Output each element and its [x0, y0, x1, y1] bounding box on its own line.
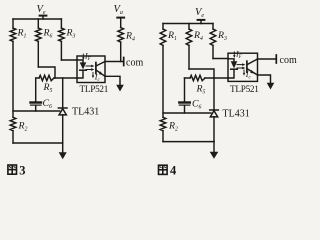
- svg-text:IF: IF: [84, 52, 92, 63]
- wire: R3 to LED anode pin: [61, 59, 77, 61]
- wire: cathode line to optocoupler: [54, 77, 77, 79]
- svg-text:R4: R4: [193, 30, 203, 42]
- svg-text:com: com: [126, 58, 143, 69]
- resistor R5: [185, 75, 206, 80]
- svg-text:TLP521: TLP521: [230, 84, 259, 94]
- op-to-coupler U3 TLP521 box: [228, 53, 258, 81]
- label Fig3 glyph: [8, 165, 17, 174]
- ground arrow (emitter, right circuit): [267, 83, 275, 90]
- svg-text:Ve: Ve: [195, 7, 204, 19]
- TL431 U2: [58, 78, 67, 143]
- label Ic with arrow: [92, 73, 94, 79]
- resistor R4: [186, 24, 192, 70]
- TL431 U4: [210, 78, 219, 142]
- svg-text:TL431: TL431: [72, 107, 99, 118]
- svg-text:R5: R5: [196, 84, 206, 96]
- label IF with arrow: [82, 54, 84, 60]
- svg-text:R1: R1: [167, 30, 177, 42]
- resistor R2: [160, 117, 166, 141]
- svg-text:TLP521: TLP521: [80, 84, 109, 94]
- resistor R1: [160, 24, 166, 118]
- svg-text:Va: Va: [114, 4, 123, 16]
- wire: R4 jog to cathode node: [189, 69, 214, 78]
- wire: REF line: [163, 112, 211, 114]
- ground arrow (emitter, left circuit): [116, 85, 124, 92]
- resistor R2: [10, 117, 16, 143]
- svg-text:IF: IF: [235, 50, 243, 61]
- svg-text:3: 3: [19, 163, 25, 177]
- node com tick: [123, 58, 125, 66]
- wire: REF line: [13, 110, 60, 112]
- capacitor C6: [179, 78, 190, 113]
- LED inside U3: [228, 59, 237, 78]
- wire: top rail: [13, 18, 61, 20]
- wire: cathode line to optocoupler: [205, 77, 228, 79]
- svg-text:C6: C6: [192, 99, 202, 111]
- svg-text:R6: R6: [43, 28, 53, 40]
- resistor R4: [118, 28, 124, 62]
- resistor R3: [210, 24, 216, 59]
- wire: emitter to ground: [258, 75, 271, 83]
- svg-text:Ve: Ve: [37, 4, 46, 16]
- svg-text:R2: R2: [168, 121, 178, 133]
- label Fig4 glyph: [159, 165, 168, 174]
- wire: R3 to LED anode pin: [213, 58, 228, 60]
- label IF with arrow: [233, 52, 235, 58]
- light arrows: [237, 63, 245, 69]
- phototransistor inside U3: [247, 59, 258, 75]
- resistor R5: [36, 75, 54, 80]
- wire: collector to com: [105, 61, 124, 63]
- phototransistor inside U1: [96, 62, 105, 77]
- svg-text:R3: R3: [66, 28, 76, 40]
- svg-text:TL431: TL431: [223, 109, 250, 120]
- resistor R3: [59, 19, 65, 60]
- LED inside U1: [77, 60, 86, 78]
- svg-text:R5: R5: [43, 82, 53, 94]
- svg-text:R1: R1: [17, 28, 27, 40]
- op-to-coupler U1 TLP521 box: [77, 56, 105, 83]
- node Va terminal: [117, 18, 124, 28]
- label Ic with arrow: [243, 70, 245, 76]
- ground arrow (left circuit): [59, 143, 67, 159]
- wire: bottom rail: [13, 142, 63, 144]
- resistor R1: [10, 19, 16, 117]
- node Ve terminal: [198, 20, 205, 24]
- resistor R6: [36, 19, 42, 67]
- svg-text:R2: R2: [18, 121, 28, 133]
- wire: emitter to ground: [105, 76, 120, 85]
- node Ve terminal: [40, 16, 47, 19]
- svg-text:C6: C6: [43, 98, 53, 110]
- node com tick: [275, 55, 277, 63]
- ground arrow (right circuit): [210, 142, 219, 159]
- wire: bottom rail: [163, 141, 214, 143]
- svg-text:R3: R3: [217, 30, 227, 42]
- light arrows: [86, 65, 94, 71]
- capacitor C6: [31, 78, 42, 111]
- wire: R6 jog to cathode node: [38, 67, 55, 78]
- svg-text:4: 4: [170, 164, 177, 178]
- wire: collector to com: [258, 58, 277, 60]
- wire: top rail: [163, 23, 213, 25]
- svg-text:R4: R4: [125, 31, 135, 43]
- svg-text:com: com: [280, 55, 297, 66]
